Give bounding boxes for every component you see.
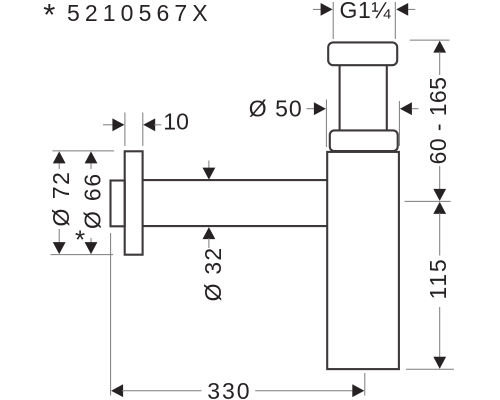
330 right extension line xyxy=(364,373,366,396)
svg-text:G1¼: G1¼ xyxy=(340,0,392,23)
O66 top arrowhead xyxy=(85,151,98,163)
O50 right extension line xyxy=(398,101,400,146)
G1 1/4 left extension line xyxy=(332,2,334,39)
G1 1/4 left arrow shaft xyxy=(313,8,322,10)
O72 dimension line upper shaft xyxy=(58,161,60,169)
O66 dimension line upper shaft xyxy=(90,161,92,169)
trap body xyxy=(327,152,399,369)
dimension 10 right extension line xyxy=(142,113,144,147)
60-165 top reference tick xyxy=(410,39,450,41)
O32 upper arrow shaft xyxy=(208,161,210,170)
wall flange xyxy=(125,151,143,254)
svg-text:330: 330 xyxy=(207,378,251,400)
O72/O66 bottom extension line xyxy=(51,254,114,256)
O32 lower arrow shaft xyxy=(208,238,210,248)
O50 left arrow shaft xyxy=(307,108,316,110)
G1 1/4 right arrow shaft xyxy=(408,8,416,10)
330 left arrowhead xyxy=(111,384,123,397)
O66 bottom arrowhead xyxy=(85,242,98,254)
O72/O66 top extension line xyxy=(52,150,114,152)
dimension 10 right arrow shaft xyxy=(154,124,161,126)
60-165 lower shaft xyxy=(439,166,441,190)
G1 1/4 right arrowhead xyxy=(396,3,408,16)
sleeve cap of body xyxy=(330,130,398,151)
G1 1/4 right extension line xyxy=(394,2,396,39)
330 left shaft xyxy=(122,390,202,392)
threaded neck right edge xyxy=(386,65,388,130)
horizontal pipe top edge xyxy=(143,179,328,181)
svg-text:Ø 66: Ø 66 xyxy=(79,172,105,229)
svg-text:Ø 50: Ø 50 xyxy=(249,96,303,122)
svg-text:*: * xyxy=(75,224,85,254)
threaded neck left edge xyxy=(339,65,341,130)
svg-text:Ø 72: Ø 72 xyxy=(48,171,74,227)
svg-text:115: 115 xyxy=(425,257,451,299)
dimension 10 left arrowhead xyxy=(112,118,124,131)
O72 top arrowhead xyxy=(53,151,66,163)
svg-text:5210567X: 5210567X xyxy=(67,0,213,26)
dimension 10 left extension line xyxy=(124,113,126,147)
wall stub pipe xyxy=(111,181,125,227)
mid reference tick xyxy=(405,200,451,202)
330 right shaft xyxy=(255,390,353,392)
115 upper shaft xyxy=(439,213,441,256)
O32 upper arrowhead xyxy=(203,168,216,180)
O72 bottom arrowhead xyxy=(53,242,66,254)
60-165 bottom arrowhead xyxy=(433,189,446,201)
horizontal pipe bottom edge xyxy=(143,225,328,227)
330 right arrowhead xyxy=(352,384,364,397)
330 left extension line xyxy=(110,233,112,396)
O50 left arrowhead xyxy=(314,102,326,115)
O50 right arrowhead xyxy=(400,102,412,115)
dimension 10 left arrow shaft xyxy=(103,124,114,126)
svg-text:60 - 165: 60 - 165 xyxy=(425,77,451,165)
O66 dimension line lower shaft xyxy=(90,238,92,244)
svg-text:10: 10 xyxy=(163,108,189,134)
O32 lower arrowhead xyxy=(203,227,216,239)
115 lower shaft xyxy=(439,307,441,358)
60-165 upper shaft xyxy=(439,52,441,76)
svg-text:Ø 32: Ø 32 xyxy=(200,247,226,302)
O72 dimension line lower shaft xyxy=(58,229,60,244)
dimension 10 right arrowhead xyxy=(143,118,155,131)
115 top arrowhead xyxy=(433,202,446,214)
bottom reference tick xyxy=(406,368,454,370)
115 bottom arrowhead xyxy=(433,357,446,369)
G1 1/4 left arrowhead xyxy=(321,3,333,16)
O50 left extension line xyxy=(325,100,327,148)
top nut cap xyxy=(328,42,397,65)
60-165 top arrowhead xyxy=(433,41,446,53)
svg-text:*: * xyxy=(43,0,55,32)
O50 right arrow shaft xyxy=(412,108,419,110)
